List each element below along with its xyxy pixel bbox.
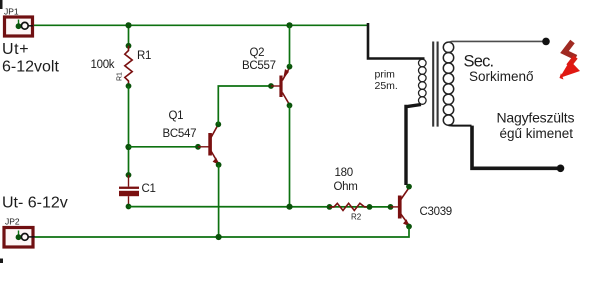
- svg-text:6-12volt: 6-12volt: [2, 59, 59, 76]
- wire: Q1 emitter down to bottom rail: [218, 165, 220, 237]
- wire: Q2 emitter up to +V rail: [289, 25, 291, 66]
- svg-text:égű kimenet: égű kimenet: [500, 126, 574, 141]
- node junction bottom rail / Q1 emitter branch: [216, 234, 222, 240]
- svg-text:Ut+: Ut+: [2, 41, 29, 58]
- node junction at top rail / Q2 emitter branch: [286, 22, 292, 28]
- wire: primary bottom to C3039 collector (black): [406, 105, 421, 186]
- svg-text:100k: 100k: [91, 59, 115, 71]
- node junction Q2 collector / middle rail: [286, 204, 292, 210]
- wire: secondary bottom output: [449, 124, 472, 126]
- transformer secondary winding: [443, 42, 453, 125]
- wire: C3039 emitter to bottom rail corner: [35, 227, 409, 238]
- node: output terminal bottom: [557, 165, 565, 173]
- node junction at top rail / R1: [125, 22, 131, 28]
- svg-text:C1: C1: [142, 183, 156, 195]
- wire: top +V rail from JP1 to transformer feed: [33, 24, 368, 26]
- capacitor C1: [119, 172, 139, 209]
- svg-text:Nagyfeszülts: Nagyfeszülts: [497, 110, 575, 126]
- svg-text:R1: R1: [137, 50, 151, 62]
- wire: Q1 base wire: [129, 146, 199, 148]
- svg-text:180: 180: [335, 167, 353, 179]
- wire: Q2 collector down to middle rail: [289, 105, 291, 206]
- wire: R1 bottom down to Q1 base junction: [128, 86, 130, 147]
- node: output terminal top: [542, 38, 550, 46]
- svg-text:Sec.: Sec.: [464, 53, 494, 71]
- connector JP2: [4, 228, 35, 248]
- transistor Q2 BC557: [268, 64, 292, 109]
- svg-text:BC557: BC557: [242, 60, 276, 72]
- wire: Q1 collector up and over to Q2 base: [218, 86, 271, 124]
- resistor R2: [327, 203, 373, 210]
- svg-text:R1: R1: [117, 72, 124, 81]
- connector JP1: [5, 17, 34, 36]
- svg-text:prim: prim: [375, 69, 396, 81]
- wire: secondary top output: [449, 40, 544, 43]
- transformer core: [433, 42, 437, 127]
- svg-text:BC547: BC547: [163, 128, 197, 140]
- transistor Q1 BC547: [195, 121, 221, 167]
- edge artifact top-left: [0, 0, 3, 9]
- edge artifact left-bottom: [0, 259, 3, 264]
- svg-text:R2: R2: [351, 213, 362, 222]
- svg-text:Q1: Q1: [169, 110, 184, 122]
- svg-text:C3039: C3039: [420, 206, 452, 218]
- transformer primary winding: [419, 59, 427, 104]
- svg-text:Sorkimenő: Sorkimenő: [469, 69, 534, 84]
- svg-text:JP1: JP1: [4, 7, 19, 17]
- wire: vertical R1 branch top segment: [128, 25, 130, 46]
- svg-text:Q2: Q2: [250, 47, 265, 59]
- wire: Q1 base junction down to C1: [128, 147, 130, 175]
- svg-text:JP2: JP2: [5, 217, 20, 227]
- svg-text:25m.: 25m.: [375, 80, 398, 92]
- svg-text:Ohm: Ohm: [334, 181, 358, 193]
- icon: red lightning bolt: [560, 42, 581, 80]
- wire: middle rail C1 to C3039 base: [129, 206, 391, 208]
- svg-text:Ut- 6-12v: Ut- 6-12v: [2, 195, 68, 212]
- wire: black feed from +V rail to transformer primary: [368, 23, 425, 59]
- transistor C3039: [388, 184, 412, 230]
- resistor R1: [125, 43, 132, 89]
- node junction R1/C1/Q1-base: [125, 144, 131, 150]
